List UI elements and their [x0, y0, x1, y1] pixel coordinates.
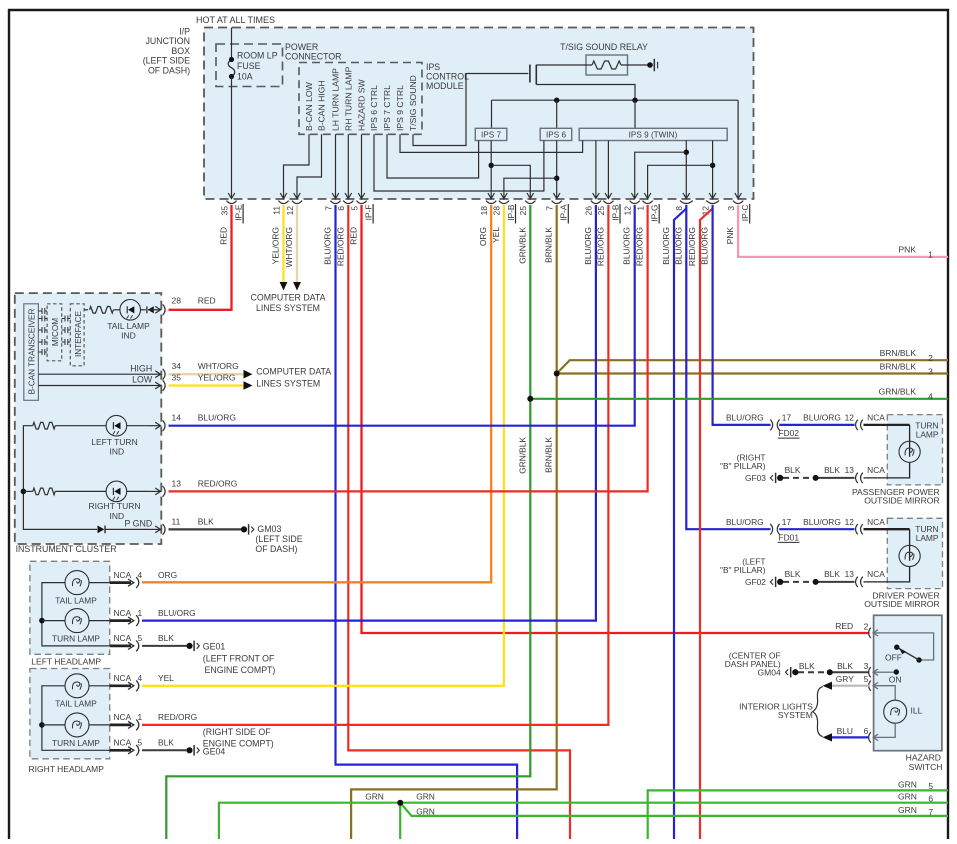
svg-text:IP-B: IP-B [610, 204, 620, 221]
svg-text:BLK: BLK [785, 465, 801, 475]
pin arrow x=712.6 [712, 184, 714, 199]
svg-text:MODULE: MODULE [426, 81, 464, 91]
wire IPS 6 CTRL to IPS 6 box [374, 134, 544, 191]
MICOM box [47, 304, 62, 361]
pin arrow x=335.5 [335, 184, 337, 199]
svg-text:3: 3 [726, 206, 736, 211]
svg-text:YEL: YEL [158, 673, 174, 683]
pin arrow x=530.3 [529, 184, 531, 199]
wire BLU/ORG pin8 diagonal to bottom [674, 209, 686, 840]
connector NCA row1 [856, 524, 858, 534]
node bus/IPS6 [554, 98, 559, 103]
svg-text:RED/ORG: RED/ORG [687, 227, 697, 266]
svg-text:4: 4 [138, 570, 143, 580]
wire YEL pin28 to right headlamp tail [142, 205, 504, 686]
wire GRN row 6 [219, 803, 948, 839]
resistor right turn [33, 488, 55, 495]
svg-text:IND: IND [109, 511, 124, 521]
mirror box [887, 415, 942, 485]
svg-text:LINES SYSTEM: LINES SYSTEM [256, 379, 320, 389]
ground GM04 [792, 669, 798, 675]
svg-text:GRN: GRN [365, 792, 384, 802]
svg-text:PNK: PNK [725, 227, 735, 245]
svg-text:LAMP: LAMP [916, 430, 939, 440]
wire ORG pin18 to left headlamp tail [142, 205, 491, 582]
svg-text:12: 12 [845, 517, 855, 527]
svg-text:LH TURN LAMP: LH TURN LAMP [331, 68, 341, 131]
svg-text:NCA: NCA [867, 517, 885, 527]
svg-text:RED/ORG: RED/ORG [635, 227, 645, 266]
svg-text:25: 25 [518, 206, 528, 216]
svg-text:OF DASH): OF DASH) [148, 65, 190, 75]
svg-text:11: 11 [172, 516, 181, 526]
relay contact plates [529, 65, 531, 83]
right headlamp pin 1 RED/ORG [110, 724, 131, 727]
wire BLU/ORG pin12 to passenger mirror [713, 205, 771, 425]
wire RH TURN LAMP to pin 6 [347, 134, 349, 183]
connector NCA row1 [856, 420, 858, 430]
svg-text:28: 28 [172, 295, 182, 305]
svg-text:COMPUTER DATA: COMPUTER DATA [256, 367, 331, 377]
svg-text:3: 3 [864, 661, 869, 671]
svg-text:6: 6 [336, 206, 346, 211]
svg-text:RIGHT TURN: RIGHT TURN [88, 501, 140, 511]
svg-text:1: 1 [928, 249, 933, 259]
wire GRN row 7 (diagonal from junction) [400, 803, 948, 816]
svg-text:35: 35 [172, 372, 182, 382]
cluster pin 28 connector [148, 309, 160, 311]
svg-text:IND: IND [121, 331, 136, 341]
svg-text:28: 28 [492, 206, 502, 216]
svg-text:TURN LAMP: TURN LAMP [52, 634, 100, 644]
svg-text:IP-E: IP-E [234, 204, 244, 221]
left feed wire in cluster [23, 426, 97, 530]
svg-text:RED/ORG: RED/ORG [335, 227, 345, 266]
svg-text:INSTRUMENT CLUSTER: INSTRUMENT CLUSTER [16, 544, 117, 554]
svg-text:13: 13 [172, 478, 182, 488]
node bus/IPS9 [632, 98, 637, 103]
hazard pin 3 BLK [869, 667, 871, 677]
node IPS7 output [489, 163, 494, 168]
svg-text:INTERFACE: INTERFACE [74, 310, 83, 356]
svg-text:GRN: GRN [898, 805, 917, 815]
svg-text:IPS 9 (TWIN): IPS 9 (TWIN) [629, 131, 678, 140]
wire GRN/BLK pin25 to bottom left [166, 205, 530, 839]
right headlamp pin 5 BLK [110, 749, 131, 752]
svg-text:GF02: GF02 [745, 577, 766, 587]
ground GE04 [186, 747, 192, 753]
svg-text:OUTSIDE MIRROR: OUTSIDE MIRROR [864, 599, 939, 609]
pin arrow x=503.9 [503, 184, 505, 199]
svg-text:LOW: LOW [132, 375, 153, 385]
IPS 7 box [475, 128, 507, 140]
wire RED pin5 to hazard switch [362, 205, 870, 633]
left headlamp internal wiring [42, 583, 110, 646]
svg-text:LAMP: LAMP [916, 533, 939, 543]
svg-text:GM03: GM03 [257, 524, 281, 534]
svg-text:BLU/ORG: BLU/ORG [323, 227, 333, 265]
wire IPS6 branch to pin 28 [504, 178, 557, 183]
connector pin 7 at x=335.5 [330, 201, 340, 204]
wire IPS9 to pin 8 [685, 141, 687, 184]
svg-text:B-CAN LOW: B-CAN LOW [304, 81, 314, 131]
pin arrow x=595.9 [595, 184, 597, 199]
wire RED/ORG pin6 long run to bottom [348, 205, 570, 839]
wire IPS9 to pin 12 (right) [712, 141, 714, 184]
svg-text:B-CAN TRANSCEIVER: B-CAN TRANSCEIVER [28, 309, 37, 395]
svg-text:GE01: GE01 [203, 642, 226, 652]
svg-text:ON: ON [889, 675, 902, 685]
svg-text:FD02: FD02 [779, 428, 800, 438]
svg-text:BLK: BLK [785, 569, 801, 579]
svg-text:4: 4 [138, 673, 143, 683]
svg-text:(LEFT FRONT OF: (LEFT FRONT OF [203, 653, 275, 663]
wire GRN row 5 [648, 790, 948, 839]
wire BLK to GF03 [816, 477, 855, 479]
svg-text:IP-F: IP-F [364, 205, 374, 221]
wire BLU/ORG FD02 to mirror [779, 424, 854, 426]
svg-text:BRN/BLK: BRN/BLK [880, 348, 917, 358]
wire bus to pin 3 [737, 100, 739, 183]
connector pin 12 at x=634.7 [630, 201, 640, 204]
ground GM03 [241, 526, 247, 532]
wire IPS6 to pin 7 [556, 141, 558, 184]
connector FD01 [770, 524, 772, 535]
svg-text:BLU/ORG: BLU/ORG [661, 227, 671, 265]
svg-text:12: 12 [285, 206, 295, 216]
svg-text:RED/ORG: RED/ORG [198, 478, 238, 488]
ground GF02 [777, 579, 783, 585]
svg-text:25: 25 [596, 206, 606, 216]
svg-text:BLK: BLK [824, 465, 840, 475]
svg-text:BLU/ORG: BLU/ORG [198, 413, 236, 423]
ground GF03 [777, 475, 783, 481]
svg-text:FD01: FD01 [779, 532, 800, 542]
connector pin 18 at x=491.2 [486, 201, 496, 204]
svg-text:IP-A: IP-A [559, 204, 569, 221]
svg-text:BOX: BOX [171, 46, 190, 56]
svg-text:IPS 7: IPS 7 [481, 131, 501, 140]
connector pin 25 at x=530.3 [525, 201, 535, 204]
svg-text:NCA: NCA [114, 673, 132, 683]
power connector (dashed) [299, 63, 422, 135]
connector pin 7 at x=556.7 [552, 201, 562, 204]
pin arrow x=231.5 [231, 184, 233, 199]
switch lever (OFF position) [898, 648, 920, 660]
svg-text:RED: RED [349, 227, 359, 245]
svg-text:OF DASH): OF DASH) [255, 544, 297, 554]
node GRN/BLK row4 [527, 396, 533, 402]
wire T/SIG SOUND to relay contact [413, 74, 466, 146]
wire RED/ORG pin25 to right headlamp turn [142, 205, 608, 725]
connector FD02 [770, 420, 772, 431]
svg-text:OFF: OFF [885, 652, 902, 662]
bulb tail lamp (right headlamp) [65, 674, 89, 698]
svg-text:P GND: P GND [124, 519, 152, 529]
svg-text:POWER: POWER [285, 42, 318, 52]
svg-text:2: 2 [864, 621, 869, 631]
svg-text:6: 6 [928, 794, 933, 804]
svg-text:BLK: BLK [158, 633, 174, 643]
svg-text:WHT/ORG: WHT/ORG [198, 361, 239, 371]
pin arrow x=348.3 [347, 184, 349, 199]
interior lights system brace [813, 687, 823, 737]
svg-text:5: 5 [928, 781, 933, 791]
connector pin 1 at x=647.6 [643, 201, 653, 204]
connector pin 11 at x=283.5 [278, 201, 288, 204]
svg-text:BLU/ORG: BLU/ORG [622, 227, 632, 265]
svg-text:GRY: GRY [836, 674, 854, 684]
bulb turn lamp (mirror) [909, 425, 911, 457]
svg-text:8: 8 [674, 206, 684, 211]
connector pin 6 at x=348.3 [343, 201, 353, 204]
svg-text:GRN: GRN [416, 792, 435, 802]
svg-text:2: 2 [928, 353, 933, 363]
wires HIGH / LOW to connector [38, 373, 148, 375]
ground GE01 [186, 643, 192, 649]
svg-text:BLU/ORG: BLU/ORG [583, 227, 593, 265]
wire into turn lamp [864, 528, 910, 530]
pin arrow x=634.7 [634, 184, 636, 199]
wire BRN/BLK branch row 2 [557, 360, 948, 373]
IPS 9 (TWIN) box [579, 128, 727, 140]
svg-text:YEL/ORG: YEL/ORG [198, 372, 236, 382]
svg-text:TAIL LAMP: TAIL LAMP [55, 699, 97, 709]
pin arrow x=491.2 [490, 184, 492, 199]
resistor left turn [33, 422, 55, 429]
svg-text:LEFT TURN: LEFT TURN [91, 437, 137, 447]
LED right turn ind [106, 481, 127, 502]
svg-text:YEL/ORG: YEL/ORG [271, 227, 281, 264]
node IPS6 output [554, 176, 559, 181]
svg-text:IP-G: IP-G [650, 205, 660, 222]
wire BLK pin11 to GM03 [169, 528, 242, 530]
instrument cluster box [15, 293, 162, 544]
svg-text:BLU/ORG: BLU/ORG [803, 413, 841, 423]
transceiver pin brackets [38, 308, 47, 314]
LED tail lamp indicator [120, 300, 141, 321]
wire IPS9 to pin 26 [595, 141, 597, 184]
wire BLK to GM04 [833, 671, 870, 673]
svg-text:FUSE: FUSE [237, 61, 261, 71]
wire: relay feed [536, 64, 592, 66]
pin arrow x=738.1 [737, 184, 739, 199]
svg-text:7: 7 [928, 807, 933, 817]
svg-text:IND: IND [109, 447, 124, 457]
fuse box (ROOM LP FUSE 10A) [216, 44, 283, 87]
bulb tail lamp (left headlamp) [65, 571, 89, 595]
svg-text:RED: RED [219, 227, 229, 245]
svg-text:5: 5 [349, 206, 359, 211]
svg-text:13: 13 [845, 569, 855, 579]
svg-text:BLU/ORG: BLU/ORG [726, 413, 764, 423]
wire IPS 7 CTRL to IPS 7 box [387, 134, 479, 178]
connector NCA row2 [856, 577, 858, 587]
svg-text:NCA: NCA [114, 633, 132, 643]
svg-text:5: 5 [138, 633, 143, 643]
svg-text:BLU/ORG: BLU/ORG [158, 608, 196, 618]
svg-text:IPS 6 CTRL: IPS 6 CTRL [369, 85, 379, 131]
svg-text:IPS 9 CTRL: IPS 9 CTRL [395, 85, 405, 131]
svg-text:IPS: IPS [426, 62, 440, 72]
svg-text:IP-C: IP-C [740, 205, 750, 222]
svg-text:ROOM LP: ROOM LP [237, 51, 278, 61]
svg-text:18: 18 [479, 206, 489, 216]
svg-text:NCA: NCA [114, 608, 132, 618]
wire BLU/ORG pin7 long run to bottom [336, 205, 518, 839]
hazard switch box [874, 615, 942, 750]
svg-text:NCA: NCA [114, 738, 132, 748]
svg-text:TAIL LAMP: TAIL LAMP [107, 321, 150, 331]
wire branch to pin 1 [648, 165, 713, 183]
svg-text:(LEFT SIDE: (LEFT SIDE [143, 56, 190, 66]
svg-text:ILL: ILL [911, 706, 923, 716]
svg-text:BLK: BLK [158, 738, 174, 748]
svg-text:GRN: GRN [416, 807, 435, 817]
wire BRN/BLK branch row 3 [557, 372, 948, 374]
svg-text:26: 26 [584, 206, 594, 216]
wire RED/ORG pin12 diagonal to bottom [700, 209, 713, 840]
connector pin 3 at x=738.1 [733, 201, 743, 204]
connector pin 26 at x=595.9 [591, 201, 601, 204]
svg-text:ORG: ORG [158, 570, 177, 580]
svg-text:1: 1 [138, 608, 143, 618]
svg-text:BLU/ORG: BLU/ORG [726, 517, 764, 527]
svg-text:PNK: PNK [899, 244, 917, 254]
hazard pin 5 GRY [869, 681, 871, 691]
svg-text:GF03: GF03 [745, 473, 766, 483]
svg-text:BRN/BLK: BRN/BLK [880, 362, 917, 372]
svg-text:5: 5 [864, 674, 869, 684]
ILL bulb [880, 686, 896, 701]
svg-text:34: 34 [172, 361, 182, 371]
mirror box [887, 518, 942, 588]
svg-text:3: 3 [928, 366, 933, 376]
svg-text:BRN/BLK: BRN/BLK [544, 227, 554, 263]
svg-text:BRN/BLK: BRN/BLK [544, 437, 554, 473]
micom/interface pin brackets [62, 316, 71, 322]
svg-text:HOT AT ALL TIMES: HOT AT ALL TIMES [196, 15, 275, 25]
B-CAN transceiver box [24, 304, 39, 401]
node BRN/BLK split [554, 371, 560, 377]
svg-text:LEFT HEADLAMP: LEFT HEADLAMP [31, 657, 101, 667]
svg-text:NCA: NCA [867, 465, 885, 475]
node IPS9/pin8 [684, 150, 689, 155]
wire IPS9 to pin 25 [607, 141, 609, 184]
wire BLU/ORG FD01 to mirror [779, 528, 854, 530]
wire: relay to bus [536, 85, 635, 101]
wire IPS7 to pin 18 [490, 141, 492, 184]
wire HAZARD SW to pin 5 [361, 134, 363, 183]
diode D1 [141, 309, 146, 311]
svg-text:NCA: NCA [867, 413, 885, 423]
svg-text:SYSTEM: SYSTEM [778, 710, 813, 720]
svg-text:SWITCH: SWITCH [909, 762, 943, 772]
wire B-CAN LOW to pin 11 [284, 134, 310, 183]
right headlamp pin 4 YEL [110, 684, 131, 687]
svg-text:RED: RED [835, 621, 853, 631]
svg-text:ORG: ORG [478, 227, 488, 246]
svg-text:(LEFT SIDE: (LEFT SIDE [255, 534, 302, 544]
svg-text:14: 14 [172, 413, 182, 423]
svg-text:1: 1 [138, 712, 143, 722]
svg-text:CONNECTOR: CONNECTOR [285, 52, 342, 62]
wire BRN/BLK pin7 trunk [351, 205, 557, 839]
right headlamp box [30, 669, 110, 759]
svg-text:"B" PILLAR): "B" PILLAR) [720, 461, 766, 471]
svg-text:12: 12 [845, 413, 855, 423]
svg-text:HIGH: HIGH [130, 363, 152, 373]
svg-text:6: 6 [864, 726, 869, 736]
wire branch to pin 12 [635, 152, 687, 183]
svg-text:RIGHT HEADLAMP: RIGHT HEADLAMP [29, 764, 105, 774]
pin arrow x=647.6 [647, 184, 649, 199]
svg-text:RED/ORG: RED/ORG [158, 712, 197, 722]
left headlamp pin 4 ORG [110, 581, 131, 584]
svg-text:IP-B: IP-B [506, 204, 516, 221]
svg-text:BLU: BLU [837, 726, 853, 736]
wire BLU/ORG pin26 to left headlamp turn [142, 205, 596, 621]
connector pin 12 at x=712.6 [706, 201, 719, 204]
wire RED/ORG pin1 to cluster pin13 [169, 205, 648, 491]
svg-text:(RIGHT SIDE OF: (RIGHT SIDE OF [203, 727, 271, 737]
svg-text:HAZARD SW: HAZARD SW [357, 79, 367, 131]
svg-text:BLK: BLK [837, 661, 853, 671]
svg-text:RED: RED [198, 295, 216, 305]
svg-text:"B" PILLAR): "B" PILLAR) [720, 565, 766, 575]
wire: module output to relay contact [466, 73, 528, 75]
fuse F1 ROOM LP FUSE 10A [231, 28, 233, 60]
svg-text:I/P: I/P [179, 27, 190, 37]
svg-text:7: 7 [323, 206, 333, 211]
svg-text:BLK: BLK [824, 569, 840, 579]
hazard pin 6 BLU [869, 732, 871, 742]
wire BLK to GE01 [142, 645, 186, 647]
bulb turn lamp (mirror) [909, 529, 911, 561]
hazard pin 2 RED [869, 628, 871, 638]
svg-text:T/SIG SOUND: T/SIG SOUND [408, 75, 418, 131]
svg-text:GRN/BLK: GRN/BLK [879, 387, 917, 397]
svg-text:T/SIG SOUND RELAY: T/SIG SOUND RELAY [560, 42, 648, 52]
INTERFACE box [70, 304, 84, 366]
connector pin 12 at x=297 [292, 201, 302, 204]
svg-text:WHT/ORG: WHT/ORG [284, 227, 294, 267]
svg-text:10A: 10A [237, 72, 253, 82]
svg-text:B-CAN HIGH: B-CAN HIGH [317, 80, 327, 131]
svg-text:GM04: GM04 [758, 668, 781, 678]
I/P junction box (dashed module block) [204, 28, 754, 200]
svg-text:35: 35 [219, 206, 229, 216]
svg-text:MICOM: MICOM [51, 318, 60, 346]
svg-text:NCA: NCA [867, 569, 885, 579]
pin arrow x=361.5 [361, 184, 363, 199]
pin arrow x=283.5 [283, 184, 285, 199]
svg-text:17: 17 [782, 517, 792, 527]
wire BLK to GF02 [816, 581, 855, 583]
bulb turn lamp (right headlamp) [65, 713, 89, 737]
svg-text:IPS 7 CTRL: IPS 7 CTRL [382, 85, 392, 131]
svg-text:CONTROL: CONTROL [426, 72, 469, 82]
LED left turn ind [106, 415, 127, 436]
svg-text:BLK: BLK [799, 661, 815, 671]
svg-text:1: 1 [635, 206, 645, 211]
pin arrow x=608.4 [607, 184, 609, 199]
svg-text:IPS 6: IPS 6 [546, 131, 566, 140]
bus wire (IPS supply) [492, 99, 739, 101]
svg-text:7: 7 [545, 206, 555, 211]
svg-text:BLU/ORG: BLU/ORG [803, 517, 841, 527]
svg-text:13: 13 [845, 465, 855, 475]
